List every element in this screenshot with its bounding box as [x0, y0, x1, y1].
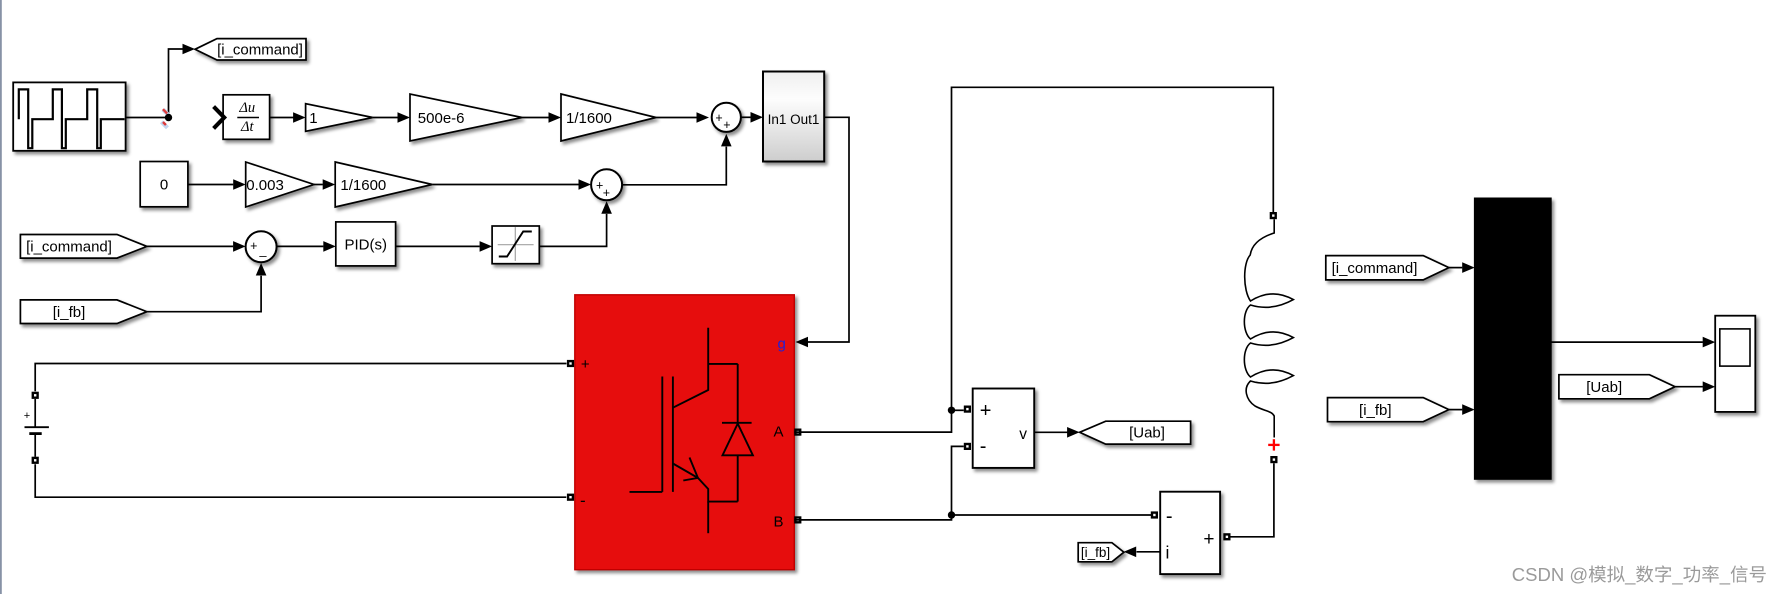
- wire constant 0 to gain 0.003: [188, 179, 246, 190]
- svg-text:[Uab]: [Uab]: [1586, 379, 1622, 396]
- wire sum S1 to subsystem In1Out1: [741, 112, 763, 123]
- unconnected red cross at inductor bottom: [1268, 439, 1279, 450]
- battery + port marker: [32, 392, 39, 399]
- svg-text:i: i: [1166, 543, 1170, 563]
- svg-text:1/1600: 1/1600: [340, 177, 386, 194]
- svg-text:_: _: [1719, 564, 1731, 586]
- svg-text:500e-6: 500e-6: [418, 110, 465, 127]
- from tag [i_fb] (row 4): [20, 300, 146, 324]
- from tag [i_fb] right: [1328, 398, 1449, 422]
- svg-text:[i_fb]: [i_fb]: [1359, 402, 1392, 419]
- gain 0.003: [246, 162, 314, 207]
- from tag [i_command] (row 3): [20, 235, 146, 259]
- saturation icon: [498, 227, 534, 261]
- svg-text:_: _: [1624, 564, 1636, 586]
- svg-text:PID(s): PID(s): [344, 237, 387, 254]
- pulse generator (signal source): [13, 82, 125, 150]
- wire converter B to node B to current measurement -: [794, 515, 1151, 520]
- constant 0: [140, 162, 188, 207]
- svg-text:v: v: [1019, 426, 1027, 443]
- svg-text:+: +: [715, 111, 722, 125]
- small scope screen: [1720, 329, 1750, 366]
- svg-text:0: 0: [160, 177, 168, 194]
- derivative block du/dt: [223, 95, 270, 140]
- goto tag [i_fb] small: [1078, 543, 1124, 562]
- inductor top port marker: [1270, 212, 1277, 219]
- from tag [i_command] right: [1326, 256, 1449, 280]
- svg-text:_: _: [1671, 564, 1683, 586]
- subsystem In1 Out1: [763, 72, 824, 162]
- svg-text:g: g: [778, 336, 786, 353]
- converter port label +: [581, 356, 590, 373]
- small scope block: [1715, 316, 1755, 412]
- sum S3: [246, 231, 277, 262]
- wire gain 1/1600 to sum S2: [432, 179, 591, 190]
- wire from tag [i_fb] up to sum S3 bottom input: [147, 263, 267, 312]
- cm - port marker: [1151, 511, 1158, 518]
- converter A port marker: [794, 429, 801, 436]
- svg-text:CSDN @: CSDN @: [1512, 564, 1588, 585]
- svg-text:[i_command]: [i_command]: [26, 239, 112, 256]
- wire sum S2 up to sum S1 bottom input: [622, 134, 732, 185]
- long wire node A up over to inductor top: [952, 87, 1274, 410]
- sum S2: [591, 169, 622, 200]
- window left border: [0, 0, 2, 594]
- inductor coil: [1244, 219, 1293, 437]
- svg-text:1/1600: 1/1600: [566, 110, 612, 127]
- junction node dot: [165, 114, 172, 121]
- junction dot node B: [948, 511, 955, 518]
- svg-text:+: +: [980, 400, 992, 422]
- svg-text:+: +: [603, 186, 610, 200]
- wire gain 1/1600 to sum S1: [656, 112, 709, 123]
- converter port label g (blue): [778, 336, 786, 353]
- svg-text:[i_command]: [i_command]: [217, 41, 303, 58]
- svg-text:[Uab]: [Uab]: [1129, 425, 1165, 442]
- battery - port marker: [32, 457, 39, 464]
- converter half-bridge block (red): [575, 295, 795, 570]
- sum S1: [712, 103, 741, 132]
- svg-text:-: -: [1166, 506, 1173, 528]
- converter port label -: [580, 491, 586, 510]
- cm + port marker: [1223, 533, 1230, 540]
- wire cm + output up to inductor bottom: [1231, 463, 1274, 537]
- saturation block: [492, 226, 539, 264]
- svg-text:Δu: Δu: [238, 100, 255, 116]
- wire pulse generator to junction: [126, 117, 169, 119]
- wire gain 0.003 to gain 1/1600 lower: [314, 179, 335, 190]
- svg-text:In1 Out1: In1 Out1: [768, 112, 820, 127]
- wire gain 500e-6 to gain 1/1600: [522, 112, 561, 123]
- wire converter A to voltage measurement + and top loop: [794, 410, 951, 432]
- svg-text:-: -: [580, 491, 586, 510]
- unconnected input chevron of derivative: [214, 107, 225, 129]
- wire battery + to converter +: [35, 364, 566, 392]
- svg-text:+: +: [723, 118, 730, 132]
- svg-text:+: +: [24, 410, 30, 422]
- goto tag [Uab]: [1080, 421, 1191, 444]
- svg-text:[i_command]: [i_command]: [1332, 260, 1418, 277]
- IGBT icon inside converter: [630, 328, 738, 534]
- junction dot node A: [948, 407, 955, 414]
- wire-end port marker below inductor: [1270, 456, 1277, 463]
- wire gain 1 to gain 500e-6: [373, 112, 410, 123]
- converter + port marker: [567, 360, 574, 367]
- wire from [Uab] to small scope: [1675, 381, 1715, 392]
- wire subsystem output down to converter gate g: [796, 117, 850, 347]
- wire PID to saturation: [396, 241, 493, 252]
- wire from tag to sum S3: [147, 241, 246, 252]
- gain 500e-6: [410, 94, 522, 141]
- svg-text:-: -: [980, 436, 987, 458]
- goto tag [i_command] top: [195, 39, 306, 60]
- wire junction A dot to vm + port: [952, 409, 964, 411]
- gain 1/1600 (top row): [561, 94, 656, 141]
- PID controller block PID(s): [336, 222, 396, 266]
- wire vm output to goto [Uab]: [1034, 427, 1079, 438]
- svg-text:B: B: [774, 514, 784, 531]
- svg-text:+: +: [1203, 529, 1214, 550]
- wire from [i_command] to scope: [1449, 262, 1475, 273]
- gain 1/1600 (middle row): [335, 162, 432, 207]
- svg-text:1: 1: [309, 110, 317, 127]
- wire saturation up to sum S2 bottom input: [539, 201, 612, 246]
- scope block (black): [1475, 198, 1551, 479]
- vm - port marker: [964, 443, 971, 450]
- svg-text:A: A: [774, 423, 784, 440]
- converter - port marker: [567, 494, 574, 501]
- wire derivative to gain 1: [270, 112, 306, 123]
- svg-text:_: _: [259, 244, 268, 258]
- wire cm i output to goto [i_fb] small: [1124, 547, 1161, 558]
- wire from [i_fb] to scope: [1449, 404, 1475, 415]
- wire battery - to converter -: [35, 464, 566, 497]
- vm + port marker: [964, 406, 971, 413]
- wire scope output to small scope: [1551, 337, 1715, 348]
- converter port label B: [774, 514, 784, 531]
- current measurement block: [1160, 492, 1220, 574]
- svg-text:0.003: 0.003: [246, 177, 284, 194]
- DC voltage source (battery): [24, 399, 49, 457]
- from tag [Uab] right: [1559, 375, 1675, 399]
- wire sum S3 to PID: [277, 241, 336, 252]
- svg-text:+: +: [581, 356, 590, 373]
- gain 1: [306, 104, 373, 132]
- freewheeling diode icon: [722, 364, 753, 502]
- converter port label A: [774, 423, 784, 440]
- svg-text:[i_fb]: [i_fb]: [53, 304, 86, 321]
- unconnected-line red dashes at junction: [162, 109, 169, 128]
- svg-text:[i_fb]: [i_fb]: [1081, 545, 1110, 560]
- wire junction up to goto tag: [169, 44, 196, 118]
- pulse generator waveform: [19, 89, 125, 148]
- watermark CSDN: [1512, 564, 1766, 586]
- svg-text:Δt: Δt: [240, 119, 255, 135]
- svg-text:+: +: [250, 239, 257, 253]
- wire vm - port down to node B: [952, 446, 964, 515]
- voltage measurement block: [973, 389, 1034, 468]
- converter B port marker: [794, 516, 801, 523]
